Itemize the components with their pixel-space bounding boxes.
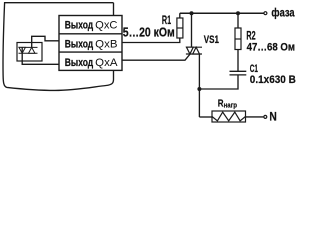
svg-text:VS1: VS1 bbox=[204, 34, 219, 46]
phase wire (top) bbox=[180, 12, 264, 14]
svg-text:QxA: QxA bbox=[95, 57, 118, 69]
triac VS1: bottom bar bbox=[186, 53, 202, 55]
svg-text:Выход: Выход bbox=[65, 20, 93, 32]
svg-text:47…68 Ом: 47…68 Ом bbox=[247, 42, 296, 54]
terminal circle N bbox=[264, 115, 267, 118]
wire: optocoupler bottom lead to terminal QxA bbox=[22, 47, 59, 64]
wire: VS1 top lead bbox=[191, 13, 193, 47]
triac VS1: top bar bbox=[186, 46, 202, 48]
divider row1/row2 bbox=[59, 33, 122, 35]
node: snubber bottom junction bbox=[197, 87, 201, 91]
svg-text:C1: C1 bbox=[250, 63, 258, 75]
wire: R2 top lead bbox=[237, 13, 239, 28]
resistor R2 bbox=[235, 28, 241, 50]
triac VS1: left triangle (down) bbox=[187, 47, 194, 54]
wire: down to load wire bbox=[199, 116, 212, 118]
node: R2 top junction bbox=[236, 11, 240, 15]
svg-text:N: N bbox=[269, 111, 276, 123]
wire: QxA to VS1 gate bbox=[122, 54, 190, 60]
wire: junction to C1 bottom bbox=[199, 75, 238, 89]
load resistor zigzag bbox=[212, 112, 246, 121]
node: VS1 top junction bbox=[190, 11, 194, 15]
output terminals box bbox=[59, 16, 122, 71]
svg-text:фаза: фаза bbox=[271, 8, 295, 20]
wire: R1 top lead to phase wire bbox=[179, 13, 181, 18]
wire: QxB to R1 bottom bbox=[122, 38, 180, 43]
wire: R2 bottom to C1 top bbox=[237, 50, 239, 72]
svg-text:QxC: QxC bbox=[95, 20, 117, 32]
resistor R1 bbox=[177, 18, 183, 38]
svg-text:Выход: Выход bbox=[65, 57, 93, 69]
svg-text:QxB: QxB bbox=[95, 38, 117, 50]
load resistor Rнагр box bbox=[212, 111, 246, 122]
device outline (torn-edge boundary of instrument) bbox=[3, 3, 114, 91]
svg-text:Выход: Выход bbox=[65, 38, 93, 50]
svg-text:5…20 кОм: 5…20 кОм bbox=[123, 26, 175, 40]
terminal circle фаза bbox=[264, 12, 267, 15]
capacitor C1 plates bbox=[230, 70, 247, 72]
optocoupler triac symbol: right triangle (up) bbox=[29, 47, 35, 53]
wire: VS1 bottom lead down bbox=[198, 54, 200, 117]
triac VS1: right triangle (up) bbox=[193, 47, 200, 54]
optocoupler triac symbol: left triangle (down) bbox=[19, 47, 25, 53]
divider row2/row3 bbox=[59, 51, 122, 53]
optocoupler triac symbol: bottom bar bbox=[19, 52, 38, 54]
optocoupler box U1 bbox=[17, 43, 42, 62]
wire: optocoupler top lead to terminal QxB (stepped) bbox=[32, 36, 60, 47]
wire: Rнагр to N terminal bbox=[246, 116, 264, 118]
optocoupler triac symbol: top bar bbox=[19, 46, 38, 48]
svg-text:0.1x630 В: 0.1x630 В bbox=[250, 74, 296, 86]
svg-text:нагр: нагр bbox=[224, 101, 238, 110]
